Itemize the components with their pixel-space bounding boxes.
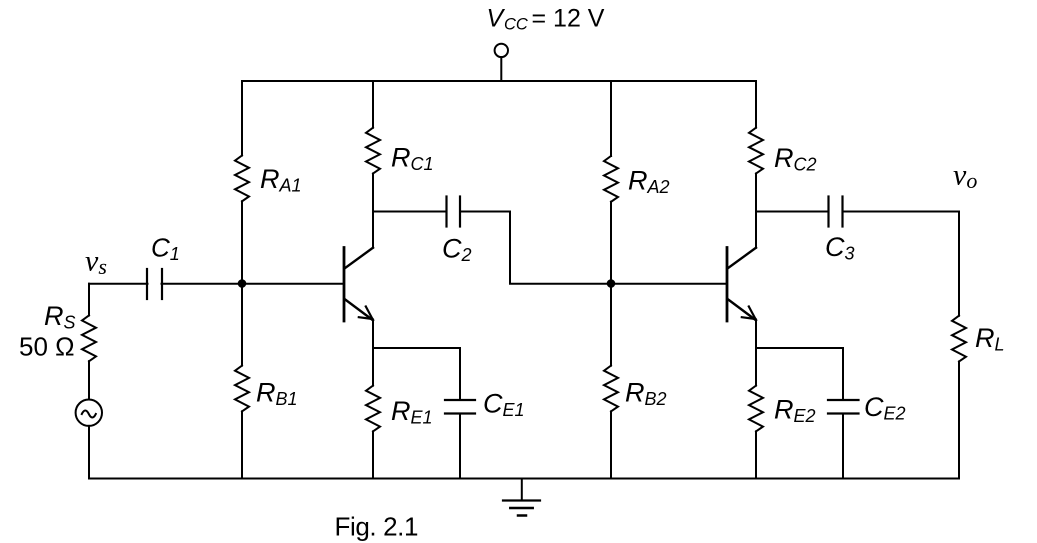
transistor Q2	[727, 248, 756, 322]
wire: RC2 branch top	[755, 81, 757, 128]
resistor RE2	[749, 386, 763, 432]
wire: base node to RB1	[241, 284, 243, 366]
capacitor C1	[147, 269, 162, 299]
resistor RC1	[366, 128, 380, 174]
svg-text:50 Ω: 50 Ω	[19, 332, 75, 362]
wire: C3 to output	[843, 211, 960, 213]
wire: RA2 branch top	[610, 81, 612, 156]
transistor Q1	[344, 248, 373, 322]
resistor RE1	[366, 386, 380, 432]
wire: collector node to C3	[756, 211, 829, 213]
svg-text:C1: C1	[151, 232, 180, 264]
wire: Q1 base	[242, 283, 343, 285]
wire: RA1 branch top	[241, 81, 243, 156]
wire: vs node to C1	[89, 283, 148, 285]
wire: RB1 to ground rail	[241, 411, 243, 478]
svg-text:CC: CC	[504, 16, 528, 34]
svg-text:vs: vs	[85, 245, 107, 280]
Vcc terminal	[495, 44, 508, 81]
wire: CE1 bottom lead	[459, 414, 461, 479]
svg-text:CE2: CE2	[864, 392, 906, 424]
resistor RS	[82, 315, 96, 361]
node: Q1 base junction dot	[239, 280, 246, 287]
label VCC = 12 V	[487, 4, 605, 33]
wire: RC2 to Q2 collector	[755, 174, 757, 248]
node: Q2 base junction dot	[608, 280, 615, 287]
wire: RC1 branch top	[372, 81, 374, 128]
wire: RE2 to ground rail	[755, 431, 757, 478]
wire: C2 to Q2 base	[460, 212, 727, 284]
wire: emitter tee to CE1	[373, 347, 460, 349]
source vs (sine)	[76, 400, 102, 426]
wire: Q1 emitter down	[372, 320, 374, 385]
resistor RA2	[604, 156, 618, 202]
capacitor C3	[829, 197, 843, 227]
resistor RL	[952, 316, 966, 362]
wire: Q2 emitter down	[755, 320, 757, 385]
svg-text:RA1: RA1	[260, 164, 302, 196]
svg-text:RC1: RC1	[391, 142, 434, 174]
wire: RC1 to Q1 collector	[372, 174, 374, 248]
wire: output down to RL	[958, 212, 960, 316]
svg-text:= 12 V: = 12 V	[532, 4, 605, 32]
wire: source to ground rail	[88, 426, 90, 479]
svg-text:V: V	[487, 4, 506, 32]
resistor RB1	[235, 366, 249, 412]
wire: RA2 to Q2 base node	[610, 202, 612, 366]
svg-text:C3: C3	[825, 232, 855, 264]
svg-text:RA2: RA2	[628, 166, 670, 198]
svg-text:RE1: RE1	[391, 396, 433, 428]
wire: RE1 to ground rail	[372, 431, 374, 478]
wire: collector node to C2	[373, 211, 447, 213]
svg-text:CE1: CE1	[483, 388, 525, 420]
capacitor CE1	[445, 400, 475, 414]
wire: vs corner down to RS	[88, 284, 90, 316]
wire: CE1 top lead	[459, 348, 461, 400]
svg-text:RC2: RC2	[774, 143, 817, 175]
ground symbol	[503, 479, 540, 516]
resistor RC2	[749, 128, 763, 174]
svg-text:C2: C2	[442, 234, 472, 266]
svg-text:Fig. 2.1: Fig. 2.1	[335, 511, 419, 541]
wire: top supply rail	[242, 80, 756, 82]
svg-text:RB1: RB1	[256, 378, 298, 410]
capacitor C2	[447, 197, 461, 227]
capacitor CE2	[828, 400, 859, 414]
wire: RS to source	[88, 361, 90, 399]
resistor RB2	[604, 366, 618, 412]
wire: RA1 to base node	[241, 201, 243, 283]
wire: RB2 to ground rail	[610, 411, 612, 478]
wire: RL to ground rail	[958, 362, 960, 479]
svg-text:vo: vo	[953, 159, 977, 194]
wire: CE2 top lead	[842, 348, 844, 400]
svg-text:RB2: RB2	[625, 377, 667, 409]
resistor RA1	[235, 156, 249, 202]
wire: emitter tee to CE2	[756, 347, 843, 349]
svg-text:RS: RS	[44, 301, 76, 333]
wire: bottom ground rail	[89, 478, 959, 480]
wire: CE2 bottom lead	[842, 414, 844, 479]
svg-text:RL: RL	[975, 323, 1005, 355]
svg-text:RE2: RE2	[774, 394, 816, 426]
wire: C1 to base node	[162, 283, 243, 285]
